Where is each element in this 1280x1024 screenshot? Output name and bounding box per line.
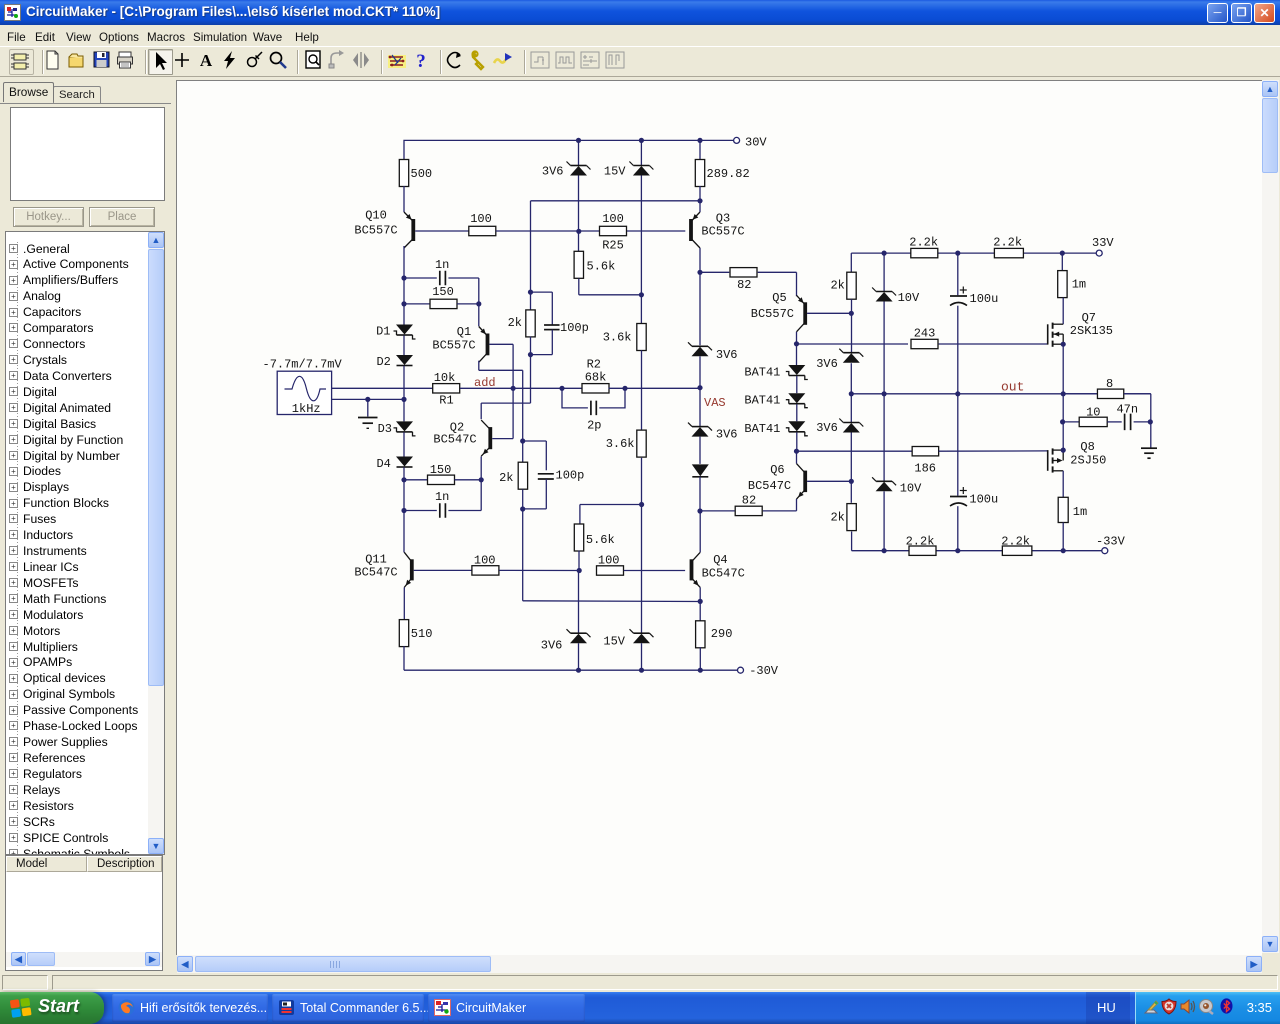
- svg-text:47n: 47n: [1116, 402, 1138, 416]
- svg-text:out: out: [1001, 380, 1024, 395]
- svg-text:100p: 100p: [556, 469, 585, 483]
- svg-text:100: 100: [474, 553, 496, 567]
- svg-text:Q5: Q5: [772, 291, 786, 305]
- svg-text:510: 510: [411, 627, 433, 641]
- svg-text:150: 150: [430, 463, 452, 477]
- svg-text:3V6: 3V6: [816, 421, 838, 435]
- svg-text:A: A: [200, 51, 213, 70]
- svg-text:15V: 15V: [603, 634, 625, 648]
- svg-text:100: 100: [598, 553, 620, 567]
- svg-text:2SK135: 2SK135: [1070, 324, 1113, 338]
- svg-text:500: 500: [411, 167, 433, 181]
- svg-text:33V: 33V: [1092, 236, 1114, 250]
- svg-text:100: 100: [602, 212, 624, 226]
- svg-text:100p: 100p: [560, 321, 589, 335]
- svg-text:2.2k: 2.2k: [1001, 534, 1030, 548]
- svg-text:186: 186: [914, 461, 936, 475]
- svg-text:3.6k: 3.6k: [606, 437, 635, 451]
- svg-text:82: 82: [737, 278, 751, 292]
- svg-text:150: 150: [432, 285, 454, 299]
- svg-text:2.2k: 2.2k: [909, 236, 938, 250]
- svg-text:2k: 2k: [830, 279, 844, 293]
- svg-text:BC547C: BC547C: [748, 479, 791, 493]
- svg-text:-33V: -33V: [1096, 535, 1126, 549]
- svg-text:1m: 1m: [1072, 278, 1086, 292]
- svg-text:Q11: Q11: [365, 553, 387, 567]
- svg-text:BC557C: BC557C: [751, 307, 794, 321]
- svg-text:2p: 2p: [587, 418, 601, 432]
- svg-text:BC557C: BC557C: [432, 339, 475, 353]
- svg-text:?: ?: [416, 51, 426, 72]
- svg-text:1m: 1m: [1073, 505, 1087, 519]
- svg-text:D2: D2: [376, 355, 390, 369]
- svg-text:3V6: 3V6: [716, 348, 738, 362]
- svg-text:R1: R1: [439, 394, 453, 408]
- svg-text:3.6k: 3.6k: [603, 331, 632, 345]
- svg-text:D1: D1: [376, 325, 390, 339]
- svg-text:290: 290: [711, 627, 733, 641]
- svg-text:D3: D3: [378, 422, 392, 436]
- svg-text:289.82: 289.82: [707, 167, 750, 181]
- svg-text:BAT41: BAT41: [744, 394, 780, 408]
- svg-text:VAS: VAS: [704, 396, 726, 410]
- svg-text:R25: R25: [602, 238, 624, 252]
- svg-text:3V6: 3V6: [541, 638, 563, 652]
- svg-text:1n: 1n: [435, 490, 449, 504]
- svg-text:100u: 100u: [970, 292, 999, 306]
- svg-text:243: 243: [914, 326, 936, 340]
- svg-text:2k: 2k: [499, 471, 513, 485]
- svg-text:-7.7m/7.7mV: -7.7m/7.7mV: [263, 357, 343, 371]
- svg-text:68k: 68k: [585, 370, 607, 384]
- svg-text:100: 100: [470, 212, 492, 226]
- svg-text:add: add: [474, 376, 496, 390]
- svg-text:5.6k: 5.6k: [587, 260, 616, 274]
- svg-text:Q8: Q8: [1080, 440, 1094, 454]
- svg-text:100u: 100u: [969, 493, 998, 507]
- svg-text:Q10: Q10: [365, 209, 387, 223]
- svg-text:15V: 15V: [604, 165, 626, 179]
- svg-text:Q6: Q6: [770, 463, 784, 477]
- svg-text:D4: D4: [376, 457, 390, 471]
- svg-text:3V6: 3V6: [542, 165, 564, 179]
- svg-text:Q7: Q7: [1082, 311, 1096, 325]
- svg-text:Q4: Q4: [713, 553, 727, 567]
- svg-text:Q3: Q3: [716, 211, 730, 225]
- svg-text:10: 10: [1086, 405, 1100, 419]
- svg-text:2.2k: 2.2k: [993, 236, 1022, 250]
- svg-text:BC547C: BC547C: [354, 566, 397, 580]
- svg-text:2k: 2k: [830, 511, 844, 525]
- svg-text:10k: 10k: [434, 371, 456, 385]
- svg-text:8: 8: [1106, 377, 1113, 391]
- svg-text:BC547C: BC547C: [433, 432, 476, 446]
- svg-text:Q1: Q1: [457, 325, 471, 339]
- svg-text:30V: 30V: [745, 135, 767, 149]
- svg-text:BC547C: BC547C: [702, 566, 745, 580]
- svg-text:2.2k: 2.2k: [906, 534, 935, 548]
- svg-text:BC557C: BC557C: [354, 224, 397, 238]
- svg-text:BAT41: BAT41: [744, 422, 780, 436]
- svg-text:2SJ50: 2SJ50: [1070, 454, 1106, 468]
- svg-text:BC557C: BC557C: [701, 224, 744, 238]
- svg-text:5.6k: 5.6k: [586, 533, 615, 547]
- svg-text:10V: 10V: [898, 291, 920, 305]
- svg-text:82: 82: [742, 493, 756, 507]
- svg-text:BAT41: BAT41: [744, 366, 780, 380]
- svg-text:1n: 1n: [435, 258, 449, 272]
- svg-text:1kHz: 1kHz: [292, 402, 321, 416]
- svg-text:3V6: 3V6: [716, 428, 738, 442]
- svg-text:2k: 2k: [508, 316, 522, 330]
- svg-text:10V: 10V: [900, 482, 922, 496]
- svg-text:-30V: -30V: [749, 664, 779, 678]
- svg-text:3V6: 3V6: [816, 357, 838, 371]
